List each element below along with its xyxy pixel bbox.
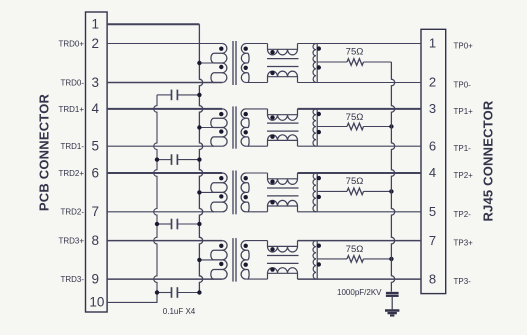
capacitor C5 1000pF/2KV plates <box>386 292 399 294</box>
wire termination bus (vertical) <box>391 62 394 292</box>
wire TRD1- pin to transformer <box>107 145 222 147</box>
wire T3 secondary top to choke <box>246 172 268 174</box>
svg-text:1000pF/2KV: 1000pF/2KV <box>337 288 382 297</box>
wire resistor R1 to termination bus <box>364 61 392 63</box>
common-mode choke L4 core <box>267 255 299 257</box>
junction C1 right <box>197 93 201 97</box>
common-mode choke L1 top winding <box>268 44 298 55</box>
svg-text:TP1+: TP1+ <box>454 107 474 116</box>
wire TRD3+ pin to transformer <box>107 240 222 242</box>
svg-text:PCB CONNECTOR: PCB CONNECTOR <box>36 93 51 211</box>
wire T1 secondary bottom to choke <box>246 82 268 84</box>
wire TRD2- pin to transformer <box>107 211 222 213</box>
capacitor C3 right lead <box>177 223 199 225</box>
transformer T1 core <box>232 41 234 85</box>
transformer T4 primary winding <box>211 241 227 280</box>
svg-text:TP2-: TP2- <box>454 210 472 219</box>
RJ45 connector box J2 <box>421 29 446 293</box>
wire T2 primary center tap <box>199 127 222 129</box>
capacitor C3 plates <box>171 219 173 230</box>
junction R2 on termination bus <box>389 124 393 128</box>
wire TP3- choke to RJ45 <box>298 278 422 280</box>
L3 bottom winding dot <box>270 200 274 204</box>
common-mode choke L3 top winding <box>268 173 298 184</box>
svg-text:3: 3 <box>429 101 436 116</box>
L4 top winding dot <box>270 247 274 251</box>
wire A4 tap to resistor R4 <box>317 258 347 260</box>
center-tapped inductor A4 <box>313 241 317 259</box>
capacitor C2 plates <box>171 154 173 165</box>
wire TP0+ choke to RJ45 <box>298 43 422 45</box>
wire T3 secondary bottom to choke <box>246 211 268 213</box>
wire TP2+ choke to RJ45 <box>298 172 422 174</box>
svg-text:75Ω: 75Ω <box>346 47 364 58</box>
A4 polarity dots <box>317 244 321 248</box>
wire TRD3- pin to transformer <box>107 278 222 280</box>
wire TRD0- pin to transformer <box>107 82 222 84</box>
T1 secondary polarity dots <box>244 47 248 51</box>
transformer T4 core <box>232 238 234 282</box>
junction C2 right <box>197 157 201 161</box>
ground symbol <box>385 309 399 312</box>
common-mode choke L1 core <box>267 58 299 60</box>
wire T1 secondary top to choke <box>246 43 268 45</box>
center-tapped inductor A2 <box>313 109 317 127</box>
svg-text:75Ω: 75Ω <box>346 244 364 255</box>
wire TRD1+ pin to transformer <box>107 108 222 110</box>
svg-text:3: 3 <box>92 75 100 90</box>
svg-text:6: 6 <box>92 165 100 180</box>
svg-text:5: 5 <box>92 139 100 154</box>
wire resistor R3 to termination bus <box>364 190 392 192</box>
center-tapped inductor A3 <box>313 173 317 191</box>
svg-text:0.1uF X4: 0.1uF X4 <box>163 307 196 316</box>
wire T1 primary center tap <box>199 62 222 64</box>
svg-text:4: 4 <box>429 165 436 180</box>
capacitor C4 plates <box>171 287 173 298</box>
wire A1 tap to resistor R1 <box>317 61 347 63</box>
svg-text:TP0+: TP0+ <box>454 42 474 51</box>
L1 top winding dot <box>270 50 274 54</box>
wire T4 secondary top to choke <box>246 240 268 242</box>
A1 polarity dots <box>317 46 321 50</box>
capacitor C1 0.1uF left lead <box>157 94 172 96</box>
svg-text:TP0-: TP0- <box>454 81 472 90</box>
wire center-tap bus (vertical) <box>199 24 202 292</box>
junction T2 center tap on bus <box>197 125 201 129</box>
svg-text:TP3-: TP3- <box>454 277 472 286</box>
svg-text:4: 4 <box>92 101 100 116</box>
transformer T2 primary winding <box>211 109 227 146</box>
transformer T3 primary winding <box>211 173 227 212</box>
common-mode choke L4 bottom winding <box>268 268 298 279</box>
PCB connector box J1 <box>86 12 108 312</box>
svg-text:TRD2+: TRD2+ <box>58 169 84 178</box>
svg-text:TRD1-: TRD1- <box>60 142 84 151</box>
wire capacitor bank bus (vertical) <box>154 95 157 303</box>
capacitor C2 right lead <box>177 159 199 161</box>
T4 secondary polarity dots <box>244 244 248 248</box>
svg-text:8: 8 <box>92 233 100 248</box>
transformer T1 primary winding <box>211 44 227 83</box>
wire T3 primary center tap <box>199 191 222 193</box>
svg-text:10: 10 <box>89 295 104 310</box>
svg-text:75Ω: 75Ω <box>346 176 364 187</box>
svg-text:TRD1+: TRD1+ <box>58 105 84 114</box>
common-mode choke L4 top winding <box>268 241 298 252</box>
L3 top winding dot <box>270 180 274 184</box>
wire A3 tap to resistor R3 <box>317 190 347 192</box>
L2 top winding dot <box>270 115 274 119</box>
wire pin10 to capacitor bank <box>107 293 157 303</box>
common-mode choke L3 bottom winding <box>268 200 298 211</box>
svg-text:1: 1 <box>92 17 100 32</box>
capacitor C3 0.1uF left lead <box>157 223 172 225</box>
svg-text:2: 2 <box>92 36 100 51</box>
capacitor C1 right lead <box>177 94 199 96</box>
junction T1 center tap on bus <box>197 61 201 65</box>
svg-text:TRD3+: TRD3+ <box>58 237 84 246</box>
common-mode choke L2 core <box>267 122 299 124</box>
resistor R1 75 ohm <box>347 59 364 66</box>
svg-text:75Ω: 75Ω <box>346 112 364 123</box>
wire T2 secondary bottom to choke <box>246 145 268 147</box>
svg-text:2: 2 <box>429 75 436 90</box>
wire TP1- choke to RJ45 <box>298 145 422 147</box>
junction T3 center tap on bus <box>197 190 201 194</box>
svg-text:TRD0+: TRD0+ <box>58 39 84 48</box>
wire pin1 to center-tap bus <box>107 23 199 25</box>
wire A2 tap to resistor R2 <box>317 126 347 128</box>
transformer T3 core <box>232 171 234 215</box>
wire resistor R2 to termination bus <box>364 126 392 128</box>
svg-text:TP1-: TP1- <box>454 144 472 153</box>
wire TP3+ choke to RJ45 <box>298 240 422 242</box>
common-mode choke L1 bottom winding <box>268 71 298 82</box>
capacitor C1 plates <box>171 90 173 101</box>
svg-text:RJ45 CONNECTOR: RJ45 CONNECTOR <box>480 100 495 221</box>
junction R4 on termination bus <box>389 257 393 261</box>
wire TRD2+ pin to transformer <box>107 172 222 174</box>
capacitor C4 0.1uF left lead <box>157 292 172 294</box>
capacitor C4 right lead <box>177 292 199 294</box>
junction C2 left <box>155 157 159 161</box>
common-mode choke L2 top winding <box>268 109 298 120</box>
svg-text:TRD2-: TRD2- <box>60 208 84 217</box>
transformer T1 secondary winding <box>241 44 249 83</box>
resistor R3 75 ohm <box>347 188 364 195</box>
common-mode choke L3 core <box>267 187 299 189</box>
junction R3 on termination bus <box>389 189 393 193</box>
junction C3 left <box>155 222 159 226</box>
svg-text:TRD3-: TRD3- <box>60 275 84 284</box>
L4 bottom winding dot <box>270 267 274 271</box>
T1 primary polarity dots <box>219 47 223 51</box>
wire TP1+ choke to RJ45 <box>298 108 422 110</box>
wire resistor R4 to termination bus <box>364 258 392 260</box>
transformer T2 secondary winding <box>241 109 249 146</box>
wire T4 primary center tap <box>199 259 222 261</box>
A3 polarity dots <box>317 176 321 180</box>
wire TP0- choke to RJ45 <box>298 82 422 84</box>
T3 primary polarity dots <box>219 176 223 180</box>
wire TRD0+ pin to transformer <box>107 43 222 45</box>
transformer T3 secondary winding <box>241 173 249 212</box>
junction C4 right <box>197 290 201 294</box>
svg-text:6: 6 <box>429 138 436 153</box>
wire C5 to ground <box>391 297 393 309</box>
T2 primary polarity dots <box>219 112 223 116</box>
svg-text:1: 1 <box>429 36 436 51</box>
common-mode choke L2 bottom winding <box>268 135 298 146</box>
svg-text:9: 9 <box>92 271 100 286</box>
junction C3 right <box>197 222 201 226</box>
svg-text:7: 7 <box>92 204 100 219</box>
svg-text:TP3+: TP3+ <box>454 239 474 248</box>
transformer T2 core <box>232 106 234 148</box>
L1 bottom winding dot <box>270 71 274 75</box>
T2 secondary polarity dots <box>244 112 248 116</box>
svg-text:TP2+: TP2+ <box>454 171 474 180</box>
resistor R4 75 ohm <box>347 256 364 263</box>
wire TP2- choke to RJ45 <box>298 211 422 213</box>
resistor R2 75 ohm <box>347 123 364 130</box>
capacitor C2 0.1uF left lead <box>157 159 172 161</box>
svg-text:5: 5 <box>429 204 436 219</box>
T3 secondary polarity dots <box>244 176 248 180</box>
junction C4 left <box>155 290 159 294</box>
wire T2 secondary top to choke <box>246 108 268 110</box>
svg-text:7: 7 <box>429 233 436 248</box>
A2 polarity dots <box>317 112 321 116</box>
L2 bottom winding dot <box>270 135 274 139</box>
svg-text:TRD0-: TRD0- <box>60 78 84 87</box>
transformer T4 secondary winding <box>241 241 249 280</box>
wire T4 secondary bottom to choke <box>246 278 268 280</box>
T4 primary polarity dots <box>219 244 223 248</box>
svg-text:8: 8 <box>429 271 436 286</box>
center-tapped inductor A1 <box>313 44 317 63</box>
junction T4 center tap on bus <box>197 258 201 262</box>
